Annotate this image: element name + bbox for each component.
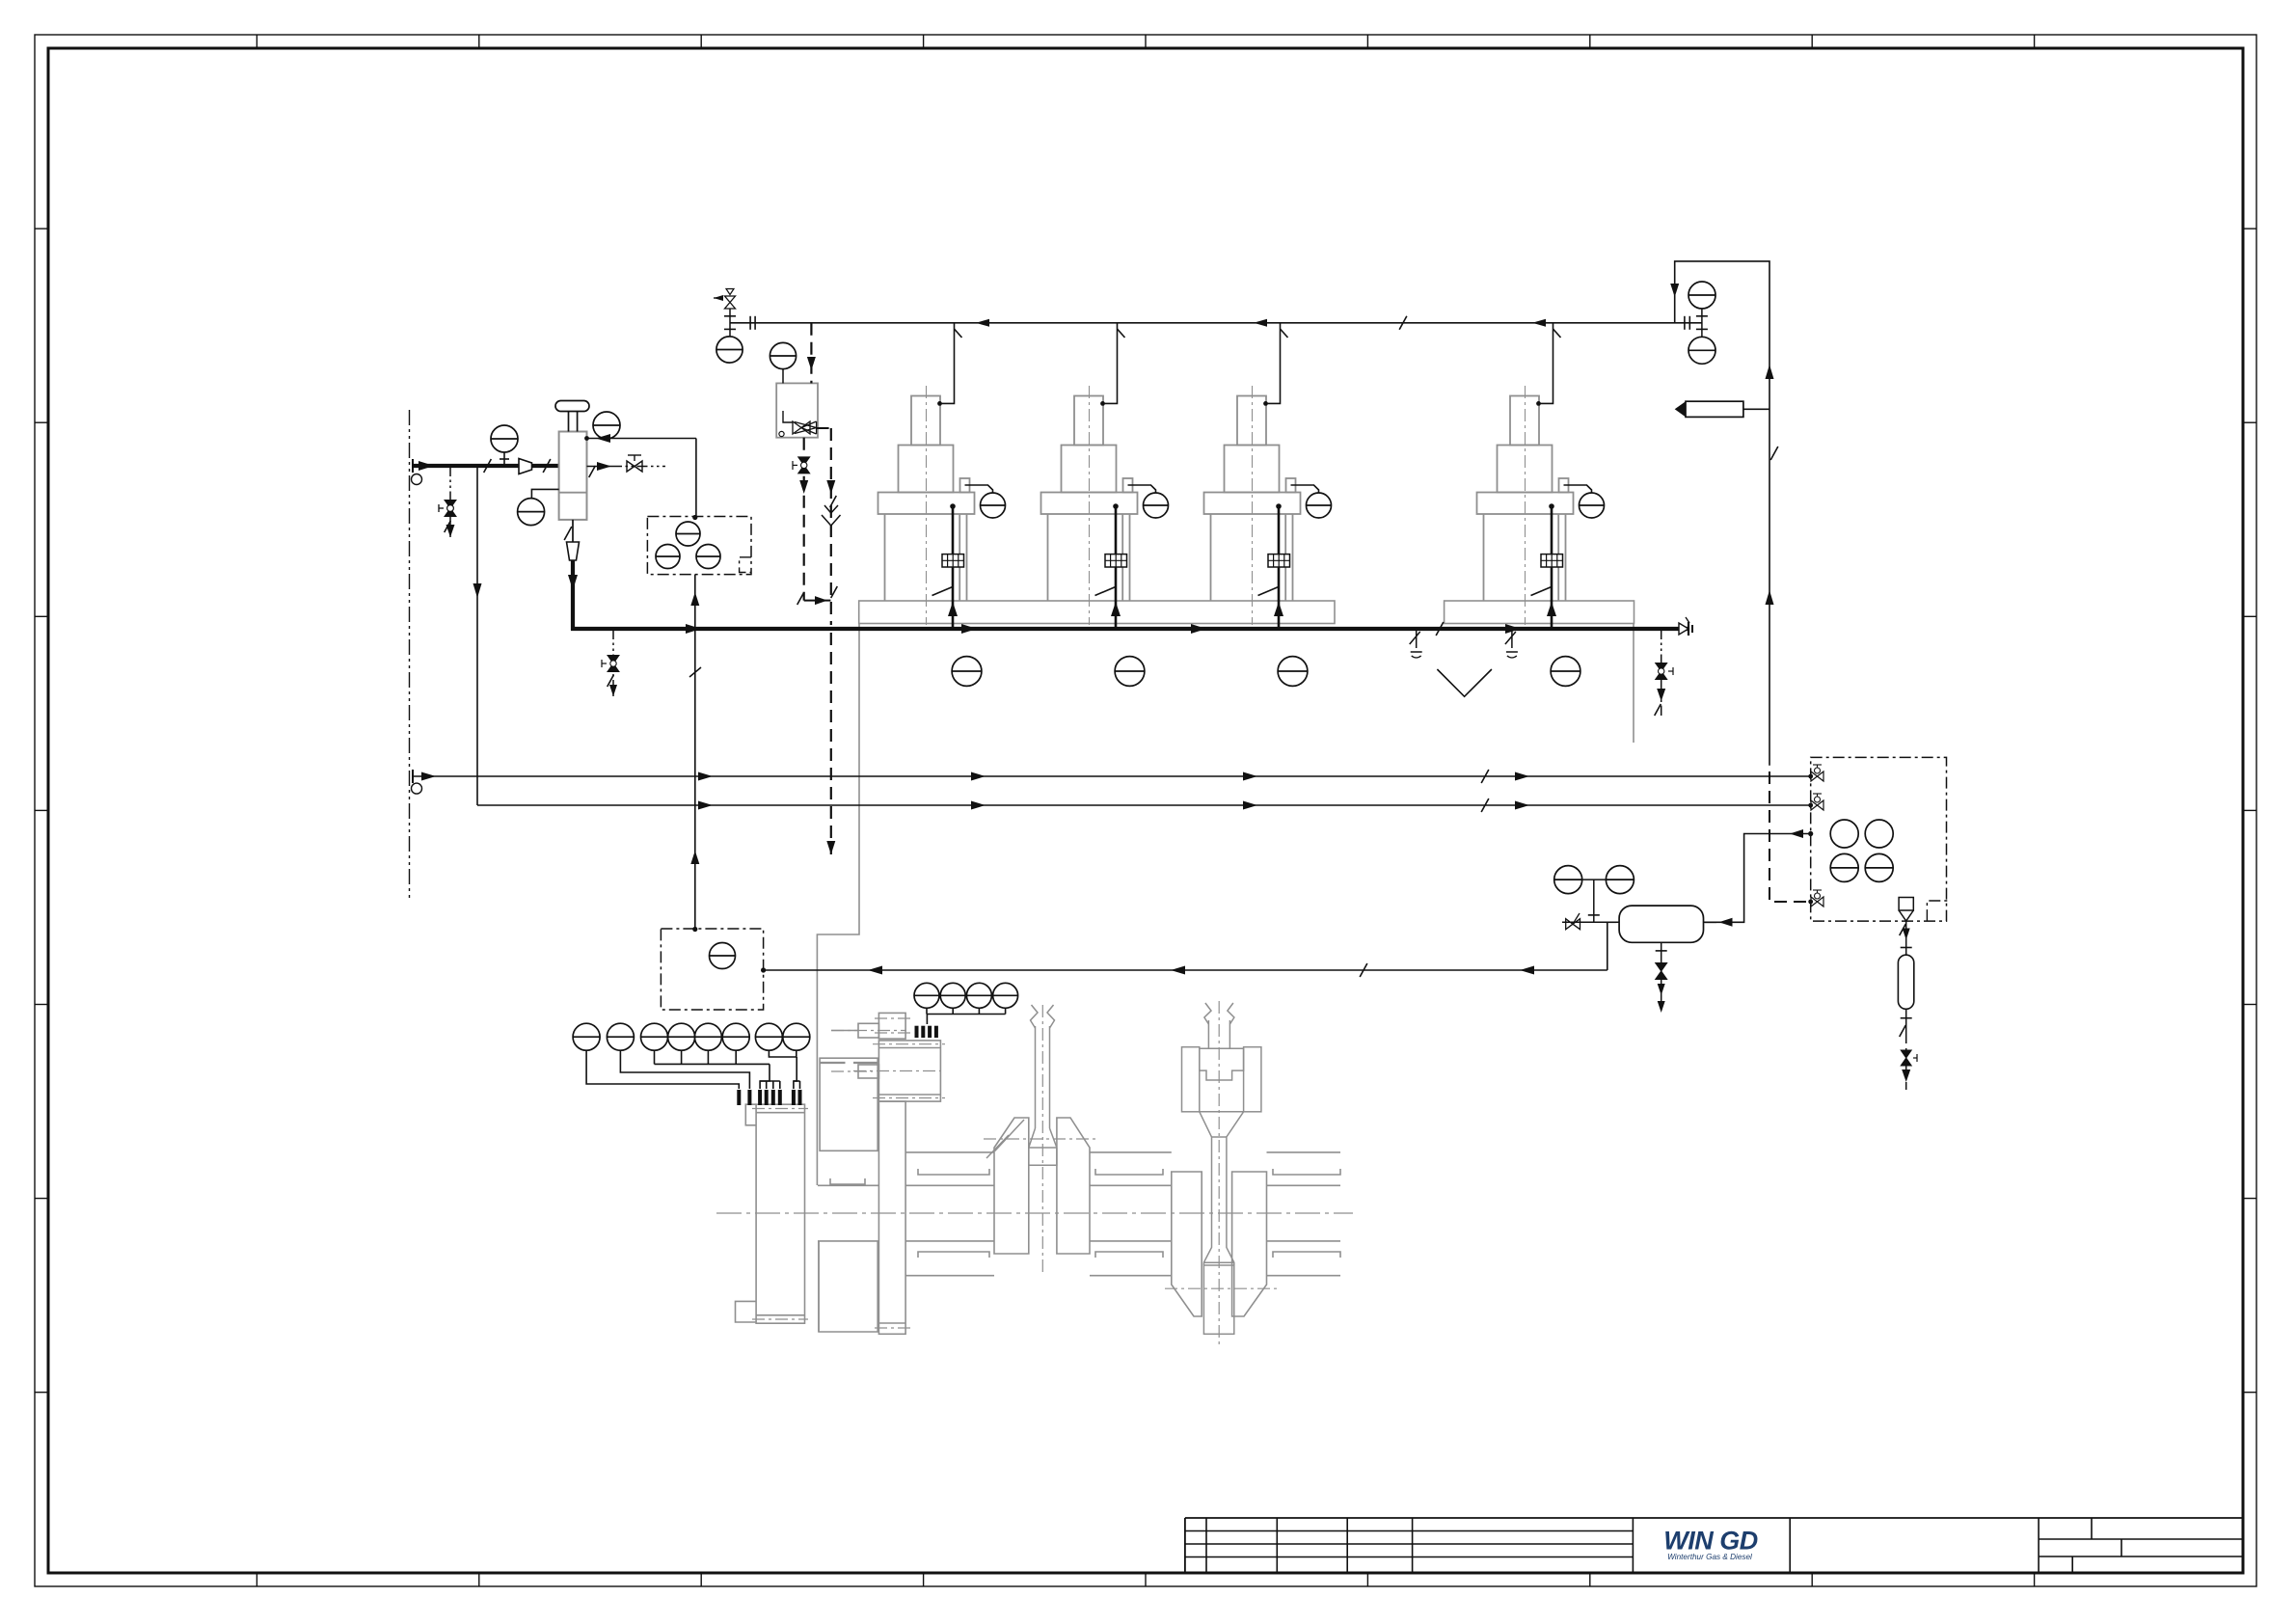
crosshead assembly [1182, 1047, 1261, 1265]
bottom end bearing unit2 [1203, 1265, 1233, 1334]
control line from header to regulator [807, 323, 816, 384]
gauge at filter top [593, 412, 620, 439]
piston rod unit1 (section) [1029, 1005, 1057, 1165]
engine bedplate (unit 4) [1445, 601, 1634, 624]
cylinder oil supply unit box [1811, 757, 1948, 921]
turning gear wheel [875, 1101, 910, 1334]
crankshaft journals [818, 1152, 1340, 1276]
torsional damper wheel [736, 1104, 809, 1323]
piston rod unit2 (section) [1204, 1003, 1234, 1048]
drain valve branch left [439, 466, 456, 537]
branch line to system oil [473, 466, 482, 805]
regulator drain control line [793, 438, 830, 605]
box inlet valve 2 [1808, 794, 1823, 810]
cylinder lubricator unit 2 [1041, 323, 1169, 687]
cylinder lubricator unit 1 [878, 323, 1006, 687]
vent relief valve [714, 289, 736, 337]
cylinder lubricator unit 3 [1204, 323, 1332, 687]
cylinder oil vent header [730, 316, 1702, 330]
gauge leaders (8) [586, 1050, 799, 1089]
battery limit boundary line [409, 410, 411, 902]
vessel drain [1656, 942, 1667, 1013]
oil mist line lower dashed [1769, 771, 1811, 902]
thrust bearing block [853, 1041, 945, 1101]
box inlet valve 1 [1808, 765, 1823, 781]
line end valve [1679, 617, 1692, 636]
gauge at filter left [518, 489, 559, 525]
thermo sensor points (8) [739, 1090, 799, 1105]
cylinder oil transfer line [413, 770, 1811, 783]
crosshead guide diagonals [986, 1120, 1024, 1158]
crankpin centerline unit1 [984, 1138, 1096, 1140]
crankpin centerline unit2 [1165, 1287, 1279, 1289]
vessel inlet valve [1562, 913, 1619, 930]
supply connection circle [412, 474, 422, 485]
shaft stub left upper [831, 1023, 906, 1038]
vessel outlet to box [1704, 829, 1814, 927]
lubricator filter F1 [555, 401, 589, 520]
svg-text:WIN GD: WIN GD [1663, 1527, 1758, 1556]
main line end drain [1655, 629, 1673, 716]
transfer connection circle [412, 783, 422, 794]
reducer cone [519, 459, 532, 474]
shaft stub left lower [831, 1065, 878, 1078]
pipe break mark supply [543, 459, 551, 473]
lubricator control instrument box [647, 517, 751, 575]
crankcase temperature gauges (8) [573, 1023, 810, 1050]
cylinder lubricator unit 4 [1477, 323, 1605, 687]
filter outlet cone [564, 520, 579, 560]
WIN GD logo [1663, 1527, 1758, 1562]
filter test connection [587, 455, 666, 477]
cylinder centerline unit1 lower [1041, 1005, 1043, 1273]
crank web pair unit2 [1172, 1172, 1267, 1316]
sampling pocket [1675, 401, 1769, 417]
title block table [1185, 1518, 2243, 1572]
thrust bearing gauges (4) [914, 983, 1018, 1008]
svg-text:Winterthur Gas & Diesel: Winterthur Gas & Diesel [1667, 1553, 1752, 1561]
level switch box [661, 929, 763, 1010]
distribution line drain valve [602, 629, 619, 698]
regulator outlet control line [817, 428, 841, 854]
instrument signal riser [689, 515, 701, 932]
gauge below relief valve [716, 337, 743, 363]
crankshaft end coupling [875, 1013, 910, 1039]
open drain 1 [1410, 629, 1422, 658]
open drain 2 [1505, 629, 1518, 658]
main bearing caps [918, 1169, 1340, 1258]
main bearing housing lower [819, 1241, 878, 1332]
box inlet valve 3 [1808, 890, 1823, 907]
box drain funnel [1899, 898, 1913, 922]
oil mist loop line [1670, 261, 1778, 766]
pipe break V mark [1437, 669, 1492, 696]
bearing cap mark A [830, 1178, 865, 1184]
engine room boundary outline [817, 623, 1634, 1332]
crank web pair unit1 [994, 1118, 1090, 1254]
gauge leaders (4) [927, 1008, 1006, 1024]
thrust sensor points (4) [917, 1026, 936, 1038]
pressure regulating valve [770, 342, 818, 437]
main distribution line to lubricators [568, 560, 1689, 636]
pressure gauge PI supply [491, 425, 518, 466]
main bearing housing upper [820, 1058, 878, 1150]
engine bedplate (units 1-3) [859, 601, 1335, 624]
vessel gauges [1554, 866, 1634, 923]
oil trap vessel [1619, 906, 1703, 942]
cylinder centerline unit2 [1218, 1001, 1220, 1345]
nitrogen accumulator branch [1898, 921, 1917, 1091]
servo oil return line [761, 922, 1607, 977]
crankshaft centerline [716, 1212, 1353, 1214]
main lube oil supply line [413, 459, 559, 473]
filter return line from instruments [584, 434, 696, 517]
vent header gauges [1688, 282, 1715, 364]
system oil line [477, 798, 1811, 812]
